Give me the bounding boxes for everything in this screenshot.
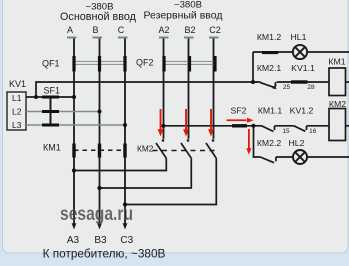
svg-text:L3: L3 (12, 120, 22, 130)
arrow consumer B3 (97, 223, 102, 229)
contact KV1.2 tick (306, 126, 308, 130)
svg-text:С2: С2 (209, 25, 221, 35)
wire phase B2 vertical (188, 38, 190, 139)
svg-text:HL2: HL2 (289, 138, 305, 148)
svg-text:КМ2.1: КМ2.1 (257, 63, 282, 73)
coil KM1 box (329, 68, 346, 96)
svg-text:А2: А2 (158, 25, 169, 35)
svg-text:В3: В3 (94, 235, 107, 246)
lamp HL1 (293, 45, 307, 59)
terminal tick B (93, 37, 103, 39)
wire drop to row3 (254, 126, 261, 157)
wire phase A2 vertical (163, 38, 165, 139)
contact KM1.1 tick (274, 126, 276, 130)
svg-text:25: 25 (283, 84, 291, 91)
svg-text:L1: L1 (12, 93, 22, 103)
breaker SF1 pole 1 (42, 96, 59, 99)
svg-text:KV1: KV1 (9, 79, 26, 89)
breaker QF1 pole A (72, 56, 75, 72)
contact KM2.2 tick (275, 157, 277, 161)
node B link (97, 186, 101, 190)
svg-text:KV1.2: KV1.2 (290, 106, 314, 116)
relay KV1 box (7, 92, 26, 130)
svg-text:С3: С3 (120, 235, 133, 246)
svg-text:L2: L2 (12, 107, 22, 117)
contactor KM1 pole A (72, 144, 75, 158)
wire rail2 to coil (307, 125, 330, 127)
contact KV1.2 arm (294, 126, 306, 132)
contactor KM2 pole C2 (125, 139, 216, 204)
node L2-B junction (98, 110, 102, 114)
node C link (123, 202, 127, 206)
red arrow phase B2 (183, 109, 189, 137)
svg-text:Основной ввод: Основной ввод (60, 11, 137, 23)
red arrow phase C2 (208, 109, 214, 137)
wire phase C vertical (124, 38, 126, 225)
wire phase A vertical (73, 38, 75, 225)
red arrow SF2 (227, 118, 254, 123)
svg-text:КМ2: КМ2 (329, 99, 346, 109)
coil KM2 box (329, 109, 346, 141)
breaker SF1 pole 2 (42, 110, 59, 113)
breaker QF1 pole C (123, 56, 126, 72)
lamp HL2 (293, 150, 307, 164)
contact KM2.1 tick (275, 82, 277, 87)
node L1-A junction (72, 95, 76, 99)
svg-text:В2: В2 (184, 25, 195, 35)
wire rail KM2.1 stub (253, 81, 261, 83)
terminal tick A2 (159, 37, 169, 39)
wire rail2 mid (275, 125, 294, 127)
breaker QF2 pole B2 (188, 56, 191, 72)
contactor KM1 dashed link (74, 149, 125, 151)
svg-text:28: 28 (307, 84, 315, 91)
node L3-C junction (123, 123, 127, 127)
red arrow down junction (246, 129, 251, 155)
contactor KM2 pole A2 (74, 139, 166, 170)
wire rail KV1.1 (277, 81, 329, 83)
contactor KM1 pole C (123, 144, 126, 158)
red arrow phase A2 (158, 109, 164, 137)
svg-text:С: С (118, 25, 125, 35)
svg-text:SF2: SF2 (231, 106, 247, 116)
contact KM2.1 arm (260, 82, 274, 87)
breaker QF1 pole B (98, 56, 101, 72)
svg-text:К потребителю, ~380В: К потребителю, ~380В (43, 247, 166, 261)
svg-text:KV1.1: KV1.1 (291, 63, 315, 73)
svg-text:QF1: QF1 (42, 59, 60, 69)
svg-text:А: А (67, 25, 73, 35)
svg-text:КМ2: КМ2 (137, 144, 154, 154)
breaker QF2 pole A2 (162, 56, 165, 72)
wire phase B vertical (99, 38, 101, 225)
terminal tick C (118, 37, 128, 39)
contact KM2.2 arm (260, 157, 274, 163)
node L1 tap (34, 95, 38, 99)
svg-text:КМ2.2: КМ2.2 (257, 138, 282, 148)
svg-text:sesaga.ru: sesaga.ru (60, 204, 133, 225)
node A link (72, 168, 76, 172)
wire L3 to phase C (26, 124, 125, 126)
node rail junction (251, 80, 255, 84)
breaker QF2 pole C2 (213, 56, 216, 72)
svg-text:В: В (92, 25, 98, 35)
contact SF2 (232, 124, 247, 127)
contactor KM2 pole B2 (100, 139, 192, 188)
breaker QF2 link lines (164, 61, 215, 64)
wire KM2 coil out (346, 125, 349, 127)
svg-text:КМ1.1: КМ1.1 (258, 106, 283, 116)
svg-text:Резервный ввод: Резервный ввод (143, 10, 222, 22)
contact KV1.1 (291, 80, 308, 83)
wire riser to lamp row (252, 52, 254, 82)
breaker QF1 link lines (74, 61, 125, 64)
svg-text:QF2: QF2 (136, 58, 154, 68)
svg-text:КМ1: КМ1 (328, 57, 345, 67)
terminal tick B2 (184, 37, 194, 39)
wire phase C2 vertical (213, 38, 215, 139)
terminal tick A (67, 37, 77, 39)
wire rail to KM2.1 (253, 81, 258, 83)
svg-text:SF1: SF1 (44, 86, 61, 96)
svg-text:16: 16 (309, 128, 317, 135)
wire KM1 coil out (346, 81, 349, 83)
wire lamp row HL1 (253, 51, 349, 53)
node rail2 junction (251, 124, 255, 128)
contact KM2.1 arrowtip (272, 85, 277, 89)
wire rail2 from A2 (164, 125, 262, 127)
node A2 tap (161, 124, 165, 128)
contactor KM1 pole B (98, 144, 101, 158)
arrow consumer A3 (72, 223, 77, 229)
svg-text:КМ1.2: КМ1.2 (257, 32, 282, 42)
wire L2 to phase B (26, 111, 100, 113)
arrow consumer C3 (123, 223, 128, 229)
breaker SF1 pole 3 (42, 124, 59, 127)
breaker SF1 link (50, 96, 52, 126)
svg-text:КМ1: КМ1 (43, 143, 61, 153)
svg-text:15: 15 (282, 128, 290, 135)
wire L1 to phase A (26, 96, 74, 98)
contact KM1.2 (262, 51, 278, 54)
wire row3 to HL2 (276, 156, 349, 158)
terminal tick C2 (209, 37, 219, 39)
svg-text:HL1: HL1 (291, 32, 307, 42)
svg-text:А3: А3 (67, 235, 80, 246)
contactor KM2 dashed link (153, 150, 218, 152)
wire control rail riser (36, 82, 253, 97)
contact KM1.1 arm (262, 126, 274, 132)
